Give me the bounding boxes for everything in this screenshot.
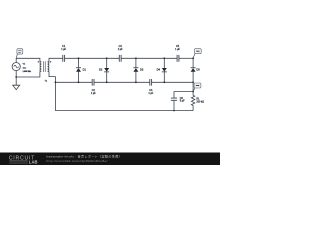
diode D3 connection wires (135, 58, 137, 82)
footer bar (0, 153, 220, 166)
junction D5 mid rail node Vo (192, 81, 194, 83)
junction V1 ground node (15, 76, 17, 78)
wire top rail C3 to C5 (121, 57, 177, 59)
capacitor C6 (171, 98, 177, 100)
annotation flag Vo at top rail output (193, 49, 201, 58)
wire bottom rail (55, 110, 193, 112)
capacitor C1 (63, 55, 65, 62)
junction D4 top rail (163, 57, 165, 59)
junction D2 top rail (106, 57, 108, 59)
transformer T1 core (44, 61, 46, 72)
capacitor C3 (119, 55, 121, 62)
svg-text:http://circuitlab.com/c2p4526m: http://circuitlab.com/c2p4526m8mu5e/ (47, 159, 108, 163)
wire C6 bottom (173, 100, 175, 110)
wire load top rail (174, 92, 193, 99)
footer logo CIRCUIT LAB (9, 155, 38, 164)
junction D5 top rail (192, 57, 194, 59)
junction D2 mid rail (106, 81, 108, 83)
junction D1 top rail (78, 57, 80, 59)
wire V1 bottom to ground junction (15, 71, 17, 77)
junction D3 mid rail (135, 81, 137, 83)
junction C6 bottom rail (173, 110, 175, 112)
diode D5 (191, 67, 196, 71)
diode D5 connection wires (192, 58, 194, 82)
svg-text:200 kΩ: 200 kΩ (196, 100, 204, 103)
transformer phase dot primary (38, 61, 39, 62)
svg-text:1 µF: 1 µF (175, 48, 180, 51)
svg-text:D3: D3 (140, 68, 144, 72)
capacitor C4 (150, 79, 152, 86)
capacitor C2 (92, 79, 94, 86)
wire mid rail C4 to output (152, 81, 194, 83)
svg-text:1 µF: 1 µF (148, 92, 153, 95)
svg-text:D1: D1 (83, 68, 87, 72)
svg-text:D4: D4 (157, 68, 161, 72)
wire secondary bottom staircase (49, 71, 55, 82)
svg-text:1.000 MHz: 1.000 MHz (23, 71, 32, 73)
wire primary bottom rail (16, 71, 40, 77)
diode D4 connection wires (163, 58, 165, 82)
wire secondary top pin (49, 58, 63, 61)
junction D1 mid rail (78, 81, 80, 83)
svg-text:1 µF: 1 µF (91, 92, 96, 95)
svg-text:1 µF: 1 µF (61, 48, 66, 51)
junction transformer secondary to mid rail (55, 81, 57, 83)
svg-text:D5: D5 (196, 68, 200, 72)
wire V1 top to transformer primary top (16, 58, 40, 62)
resistor RL (191, 92, 194, 111)
ground (13, 77, 20, 90)
junction D3 top rail (135, 57, 137, 59)
wire top rail C5 to output node (179, 57, 193, 59)
capacitor C5 (177, 55, 179, 62)
diode D2 (104, 68, 109, 72)
svg-text:5 µF: 5 µF (180, 100, 185, 103)
junction RL top (192, 91, 194, 93)
svg-text:sine: sine (23, 67, 27, 69)
voltage source V1 (12, 63, 20, 71)
diode D1 connection wires (78, 58, 80, 82)
junction D4 mid rail (163, 81, 165, 83)
wire bottom rail drop from transformer junction (54, 82, 56, 110)
footer caption text (47, 154, 123, 163)
transformer T1 secondary coil (48, 62, 50, 72)
wire mid rail left segment (55, 81, 92, 83)
svg-text:1 µF: 1 µF (118, 48, 123, 51)
svg-text:LAB: LAB (29, 159, 38, 164)
diode D4 (162, 68, 167, 72)
wire top rail C1 to C3 (65, 57, 120, 59)
wire output node down to load rail (192, 82, 194, 91)
wire mid rail C2 to C4 (94, 81, 150, 83)
comment bubble at V1 (16, 49, 23, 58)
diode D3 (133, 67, 138, 71)
diode D1 (76, 67, 81, 71)
transformer T1 primary coil (40, 62, 42, 72)
transformer phase dot secondary (50, 61, 51, 62)
labels (23, 45, 205, 103)
diode D2 connection wires (106, 58, 108, 82)
svg-text:D2: D2 (99, 68, 103, 72)
annotation flag Vo at load (193, 83, 201, 91)
